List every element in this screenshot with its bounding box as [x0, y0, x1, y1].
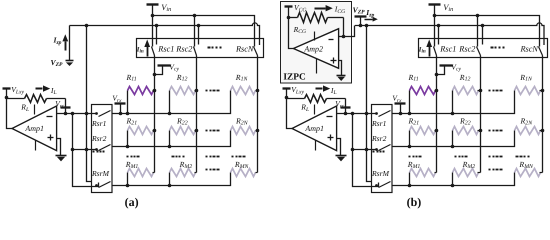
wire RCG right [328, 17, 344, 19]
wire row M (b) [392, 173, 515, 186]
label Vcy (a) [169, 62, 179, 72]
wire RL right (a) [47, 98, 66, 100]
ellipsis in Rsr box (a) [93, 151, 105, 153]
label R12 (b) [459, 73, 471, 83]
wire IZPC output [344, 26, 355, 37]
switch RscN (b) [539, 47, 543, 56]
wire stub RM2 (b) [452, 173, 454, 186]
switch RsrM (b) [379, 182, 391, 188]
wire pole bus 2 (a) [87, 26, 92, 182]
wire row 1 (a) [112, 91, 231, 114]
node row2-stub1 (a) [126, 145, 130, 149]
label IL (b) [330, 86, 337, 96]
node Vrx (b) [399, 112, 403, 116]
node Vin-col1 (a) [151, 14, 155, 18]
wire pole bus 2 (b) [367, 26, 372, 182]
node ZP-col2 (b) [481, 24, 485, 28]
node rowM-stub2 (b) [451, 184, 455, 188]
ellipsis col1 gap (b) [409, 156, 422, 158]
resistor RMN (a) [231, 169, 258, 177]
resistor RL (a) [25, 95, 47, 103]
wire Amp2 inv input [339, 36, 344, 38]
label Rsc1 (b) [439, 45, 456, 54]
op-amp Amp1 (b) [292, 105, 337, 151]
node R12-col (b) [479, 89, 483, 93]
label R21 (a) [126, 117, 138, 127]
svg-text:Amp1: Amp1 [24, 124, 44, 133]
switch Rsr2 (b) [379, 145, 391, 151]
node Vrc-bus1 (b) [351, 112, 355, 116]
label Vin (b) [443, 2, 453, 13]
label Amp2 [303, 45, 323, 54]
label Izp (a) [53, 36, 62, 46]
wire col2 stem-Vin (b) [477, 16, 479, 47]
label ICG [334, 5, 345, 15]
node RsrM pole (a) [95, 184, 98, 187]
label (b) [407, 195, 422, 209]
wire feedback (a) [7, 98, 13, 129]
svg-text:RscN: RscN [520, 45, 539, 54]
node ZP-rsr (b) [365, 24, 369, 28]
label Vrx (a) [112, 94, 122, 104]
ellipsis col1 gap (a) [127, 156, 140, 158]
label Iin (a) [136, 46, 144, 54]
ellipsis in Rsr box (b) [373, 151, 385, 153]
svg-text:RscN: RscN [235, 45, 254, 54]
wire Vin bus (a) [153, 16, 255, 47]
resistor RM2 (a) [170, 169, 197, 177]
svg-text:Rsc1: Rsc1 [439, 45, 456, 54]
resistor R22 (b) [453, 127, 481, 135]
node branch-bus2 (b) [365, 148, 369, 152]
node ZP-rsr (a) [85, 24, 89, 28]
label R22 (b) [459, 117, 471, 127]
source VCG [285, 7, 293, 18]
wire RCG left [289, 17, 298, 19]
switch-bank box Rsr (b) [372, 105, 393, 193]
label Vin (a) [161, 2, 171, 13]
wire stub RM1 (b) [409, 173, 411, 186]
label Vrc (a) [55, 99, 64, 109]
resistor R11 (a) [128, 87, 155, 95]
ellipsis row 2 gap (a) [206, 130, 220, 132]
label R11 (b) [408, 73, 419, 83]
label RL (b) [300, 103, 309, 113]
wire column 2 (a) [196, 56, 198, 173]
current arrow IL (b) [316, 85, 331, 91]
node row2-stub2 (b) [451, 145, 455, 149]
node Vrx (a) [119, 112, 123, 116]
label Amp1 (a) [24, 124, 44, 133]
node VCG [287, 16, 291, 20]
wire column N (b) [542, 56, 544, 173]
resistor RM1 (b) [410, 169, 437, 177]
wire noninv input (b) [337, 139, 341, 156]
node Rsr1 pole (b) [375, 112, 378, 115]
ground Amp1 (a) [56, 156, 67, 162]
wire col1 stem-Vin (b) [434, 16, 436, 47]
switch RsrM (a) [99, 182, 111, 188]
wire col1 stem-ZP (b) [438, 26, 440, 45]
switch Rsc1 (a) [152, 47, 155, 56]
label R1N (b) [519, 73, 533, 83]
wire stub R22 (a) [169, 131, 171, 147]
wire ZP bus (a) [70, 23, 260, 45]
svg-text:(b): (b) [407, 195, 422, 209]
label VLxy (a) [11, 85, 24, 95]
node R12-col (a) [195, 89, 199, 93]
wire col2 stem-Vin (a) [194, 16, 196, 47]
wire stub R21 (b) [409, 131, 411, 147]
node R21-col (a) [153, 129, 157, 133]
node Rsr2 pole (b) [375, 148, 378, 151]
label Rsr1 (b) [371, 119, 386, 128]
node row1-stub1 (a) [126, 112, 130, 116]
current arrow Iin (b) [426, 40, 432, 57]
source VLxy (a) [3, 89, 11, 98]
switch-bank box Rsr (a) [92, 105, 113, 193]
ground terminal VZP (a) [66, 61, 74, 67]
wire RL left (b) [287, 98, 305, 100]
node row2-stub2 (a) [168, 145, 172, 149]
wire pole bus 1 (b) [353, 114, 379, 187]
wire ZP bus (b) [355, 23, 544, 45]
ellipsis row M gap (b) [489, 169, 503, 171]
label (a) [125, 195, 139, 209]
label Rsr2 (b) [371, 134, 387, 143]
label R12 (a) [176, 73, 188, 83]
resistor RCG [298, 13, 328, 23]
wire stub R12 (a) [169, 91, 171, 114]
label R11 (a) [126, 73, 137, 83]
op-amp Amp2 [293, 29, 338, 74]
switch Rsc2 (b) [477, 47, 481, 56]
terminal Vrc (b) [341, 99, 351, 114]
svg-text:Rsr1: Rsr1 [371, 119, 386, 128]
ellipsis col2 gap (a) [172, 156, 185, 158]
node R11-col (a) [153, 89, 157, 93]
label R22 (a) [176, 117, 188, 127]
svg-text:IZPC: IZPC [283, 73, 306, 83]
label Vrc (b) [335, 99, 344, 109]
resistor R21 (b) [410, 127, 437, 135]
node R21-col (b) [435, 129, 439, 133]
wire row 2 (b) [392, 131, 515, 147]
label R21 (b) [408, 117, 420, 127]
resistor R2N (a) [231, 127, 258, 135]
node R11-col (b) [435, 89, 439, 93]
label RM2 (a) [179, 160, 193, 170]
label RMN (b) [518, 160, 534, 170]
switch Rsc2 (a) [194, 47, 197, 56]
node Vcy (a) [153, 73, 157, 77]
resistor R1N (a) [231, 87, 258, 95]
resistor R2N (b) [515, 127, 543, 135]
IZPC block box [281, 2, 352, 84]
ellipsis colN gap (b) [516, 156, 530, 158]
ground Amp2 [337, 76, 346, 82]
svg-text:(a): (a) [125, 195, 139, 209]
wire feedback (b) [287, 98, 293, 129]
node branch-bus1 (b) [351, 148, 355, 152]
node Vin-col2 (a) [193, 14, 197, 18]
node R1N-col (b) [541, 89, 545, 93]
label Rsc2 (a) [175, 45, 192, 54]
node R22-col (b) [479, 129, 483, 133]
ellipsis row 1 gap (b) [489, 90, 503, 92]
terminal Vcy (b) [437, 66, 453, 75]
svg-text:Rsc1: Rsc1 [157, 45, 174, 54]
svg-text:Amp2: Amp2 [303, 45, 323, 54]
label RM1 (a) [125, 160, 139, 170]
node Amp2 inv [342, 35, 346, 39]
node Vrc-bus2 (a) [85, 112, 89, 116]
node row1-stub2 (a) [168, 112, 172, 116]
label VCG [294, 3, 306, 13]
wire stub R12 (b) [452, 91, 454, 114]
wire col1 stem-ZP (a) [156, 26, 158, 45]
label RscN (a) [235, 45, 254, 54]
wire RCG drop [343, 18, 345, 37]
node Vin-col2 (b) [476, 14, 480, 18]
ground Amp1 (b) [336, 156, 347, 162]
current arrow Izp (a) [62, 34, 68, 50]
label Izp (b) [365, 8, 374, 18]
ellipsis row M gap (a) [206, 169, 220, 171]
current arrow ICG [315, 5, 333, 11]
node row1-stub2 (b) [451, 112, 455, 116]
node R2N-col (a) [256, 129, 260, 133]
current arrow Iin (a) [144, 40, 150, 57]
ellipsis diagonal gap (a) [206, 156, 220, 158]
label RMN (a) [234, 160, 250, 170]
node feedback (b) [285, 96, 289, 100]
switch Rsr1 (a) [99, 111, 111, 117]
source VLxy (b) [283, 89, 291, 98]
label IL (a) [50, 86, 57, 96]
label Amp1 (b) [304, 124, 324, 133]
wire row2 pole branch (a) [73, 149, 98, 151]
node Rsr2 pole (a) [95, 148, 98, 151]
wire pole bus 1 (a) [73, 114, 99, 187]
resistor R21 (a) [128, 127, 155, 135]
ellipsis col2 gap (b) [455, 156, 468, 158]
terminal Vrc (a) [61, 99, 71, 114]
label RsrM (b) [371, 169, 390, 178]
wire Vin bus (b) [435, 16, 540, 47]
ellipsis row 2 gap (b) [489, 130, 503, 132]
node Vrc-RL (b) [344, 112, 348, 116]
wire Amp2 feedback [289, 18, 294, 49]
label R2N (b) [520, 117, 534, 127]
label RM1 (b) [407, 160, 421, 170]
resistor RL (b) [305, 95, 327, 103]
resistor R1N (b) [515, 87, 543, 95]
label Rsr2 (a) [91, 134, 107, 143]
node ZP-col1 (a) [155, 24, 159, 28]
wire col2 stem-ZP (a) [198, 26, 200, 45]
svg-text:Rsr2: Rsr2 [371, 134, 387, 143]
label VZP (b) [353, 5, 366, 15]
ellipsis in Rsc box (b) [491, 47, 505, 49]
resistor R12 (b) [453, 87, 481, 95]
svg-text:Rsr1: Rsr1 [91, 119, 106, 128]
wire stub RM2 (a) [169, 173, 171, 186]
node Vrc-bus2 (b) [365, 112, 369, 116]
label Rsc2 (b) [458, 45, 475, 54]
node Vin-col1 (b) [433, 14, 437, 18]
wire RL right (b) [327, 98, 346, 100]
switch RscN (a) [254, 47, 258, 56]
svg-text:Rsc2: Rsc2 [458, 45, 475, 54]
wire stub R11 (a) [127, 91, 129, 114]
label RCG [293, 25, 306, 35]
node branch-bus2 (a) [85, 148, 89, 152]
power source Vin (a) [147, 5, 159, 16]
wire RL left (a) [7, 98, 25, 100]
node rowM-stub1 (b) [408, 184, 412, 188]
resistor RM2 (b) [453, 169, 481, 177]
switch Rsr2 (a) [99, 145, 111, 151]
resistor R22 (a) [170, 127, 197, 135]
label Vrx (b) [392, 94, 402, 104]
node rowM-stub2 (a) [168, 184, 172, 188]
wire noninv input (a) [57, 139, 61, 156]
svg-text:RsrM: RsrM [371, 169, 390, 178]
svg-text:Rsc2: Rsc2 [175, 45, 192, 54]
wire column 1 (b) [436, 56, 438, 173]
power source Vin (b) [429, 5, 441, 16]
label RM2 (b) [462, 160, 476, 170]
switch-bank box Rsc (a) [137, 39, 264, 58]
terminal Vcy (a) [155, 66, 171, 75]
label Iin (b) [418, 46, 426, 54]
ellipsis diagonal gap (b) [489, 156, 503, 158]
resistor RM1 (a) [128, 169, 155, 177]
wire stub R11 (b) [409, 91, 411, 114]
label R2N (a) [235, 117, 249, 127]
svg-text:Rsr2: Rsr2 [91, 134, 107, 143]
node VZP (b) [359, 24, 363, 28]
resistor R12 (a) [170, 87, 197, 95]
ellipsis colN gap (a) [232, 156, 246, 158]
label RL (a) [20, 103, 29, 113]
node R22-col (a) [195, 129, 199, 133]
switch Rsc1 (b) [434, 47, 437, 56]
wire stub R21 (a) [127, 131, 129, 147]
wire col1 stem-Vin (a) [152, 16, 154, 47]
label IZPC [283, 73, 306, 83]
node Vrc-RL (a) [64, 112, 68, 116]
node R1N-col (a) [256, 89, 260, 93]
wire column N (a) [257, 56, 259, 173]
resistor R11 (b) [410, 87, 437, 95]
wire column 1 (a) [154, 56, 156, 173]
terminal Vrx (a) [115, 104, 126, 114]
label Vcy (b) [451, 62, 461, 72]
label RscN (b) [520, 45, 539, 54]
ellipsis in Rsc box (a) [208, 47, 222, 49]
svg-text:Amp1: Amp1 [304, 124, 324, 133]
switch-bank box Rsc (b) [419, 39, 548, 58]
node Vrc-bus1 (a) [71, 112, 75, 116]
terminal VZP (b) [355, 17, 367, 26]
op-amp Amp1 (a) [12, 105, 57, 151]
wire col2 stem-ZP (b) [482, 26, 484, 45]
node rowM-stub1 (a) [126, 184, 130, 188]
node ZP-col2 (a) [197, 24, 201, 28]
ellipsis row 1 gap (a) [206, 90, 220, 92]
current arrow Izp (b) [365, 17, 378, 22]
node row2-stub1 (b) [408, 145, 412, 149]
label R1N (a) [235, 73, 249, 83]
wire stub R22 (b) [452, 131, 454, 147]
wire row 1 (b) [392, 91, 515, 114]
wire row 2 (a) [112, 131, 231, 147]
wire VZP drop (a) [69, 26, 71, 61]
label RsrM (a) [91, 169, 110, 178]
node R2N-col (b) [541, 129, 545, 133]
terminal Vrx (b) [395, 104, 406, 114]
current arrow IL (a) [36, 85, 51, 91]
node RsrM pole (b) [375, 184, 378, 187]
wire Vrc node (b) [337, 113, 377, 115]
label Rsc1 (a) [157, 45, 174, 54]
wire stub RM1 (a) [127, 173, 129, 186]
node Rsr1 pole (a) [95, 112, 98, 115]
node ZP-col1 (b) [437, 24, 441, 28]
svg-text:RsrM: RsrM [91, 169, 110, 178]
wire Amp2 noninv [339, 61, 342, 76]
switch Rsr1 (b) [379, 111, 391, 117]
node branch-bus1 (a) [71, 148, 75, 152]
node Vcy (b) [435, 73, 439, 77]
node feedback (a) [5, 96, 9, 100]
node row1-stub1 (b) [408, 112, 412, 116]
wire row M (a) [112, 173, 231, 186]
label Rsr1 (a) [91, 119, 106, 128]
label VZP (a) [51, 58, 64, 68]
wire row2 pole branch (b) [353, 149, 378, 151]
wire Vrc node (a) [57, 113, 97, 115]
label VLxy (b) [291, 85, 304, 95]
resistor RMN (b) [515, 169, 543, 177]
wire column 2 (b) [480, 56, 482, 173]
